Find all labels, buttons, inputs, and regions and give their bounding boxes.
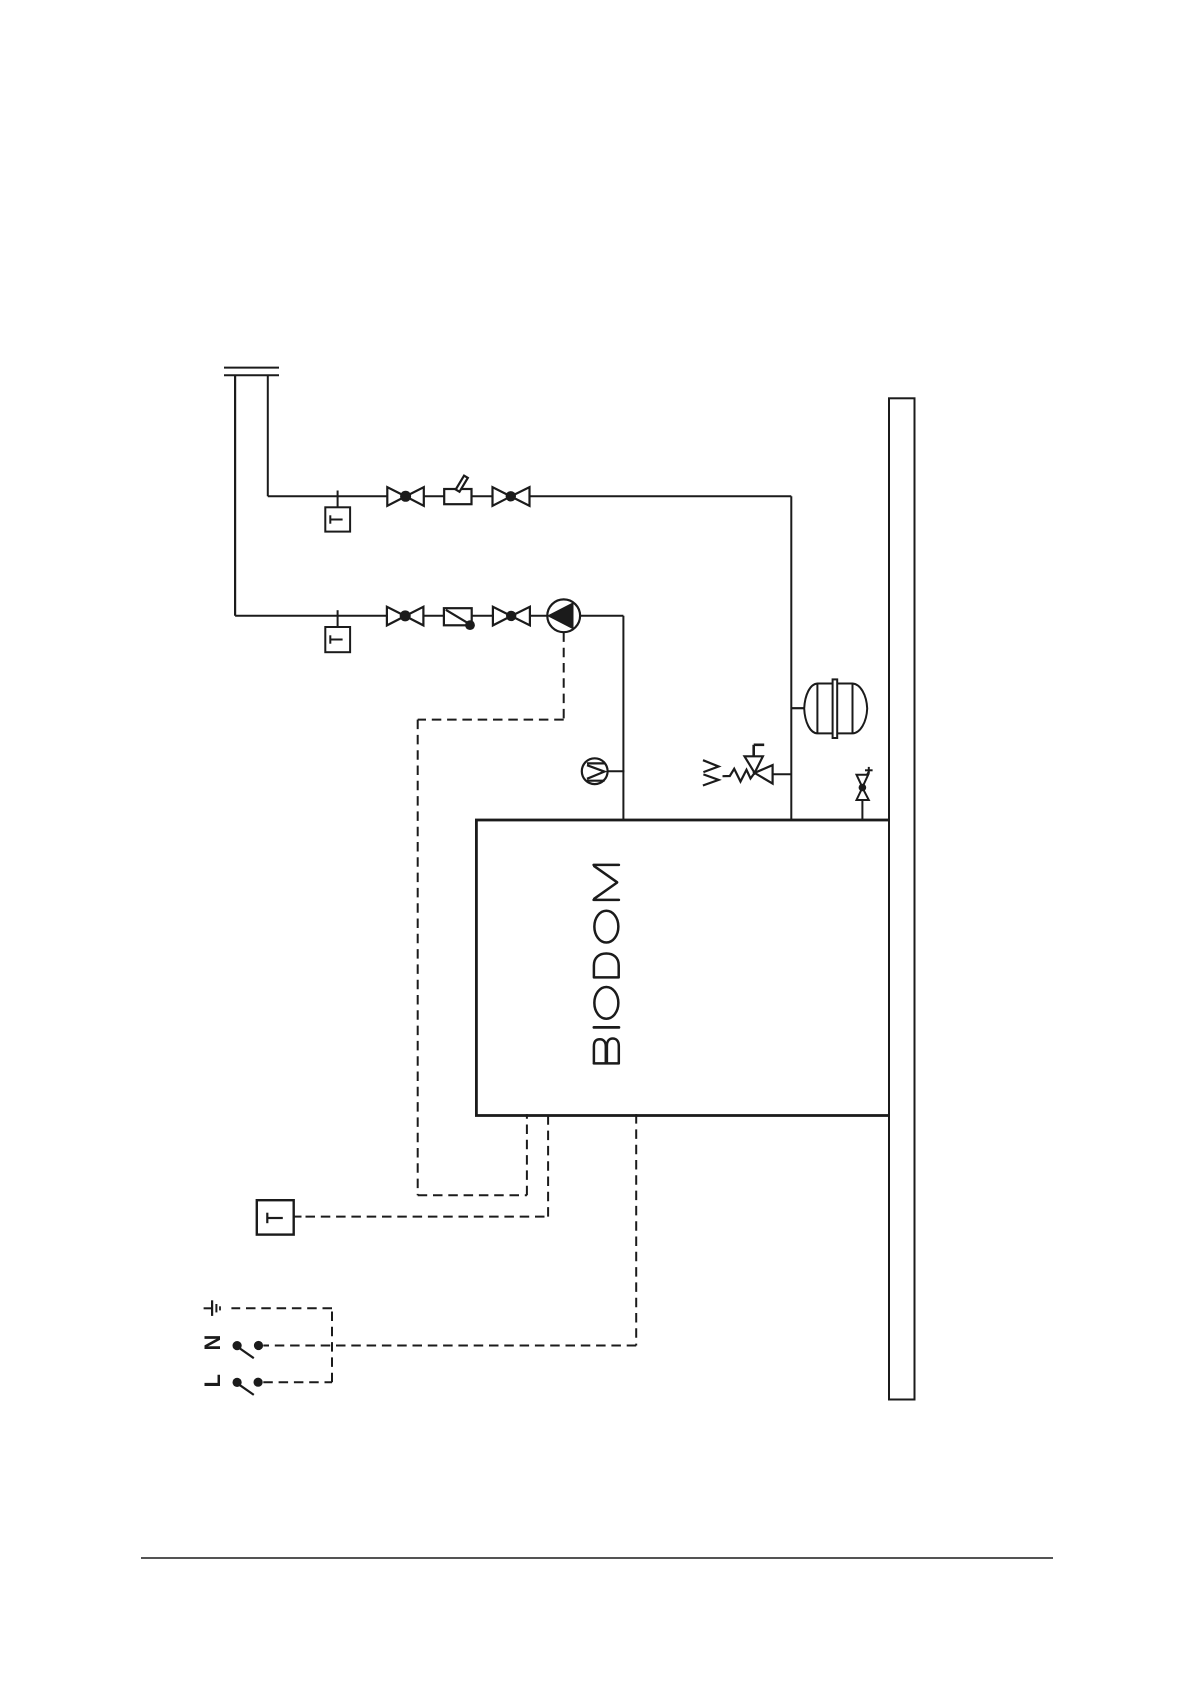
letter M xyxy=(594,864,619,867)
ground symbol xyxy=(204,1300,220,1316)
letter B xyxy=(594,1039,619,1064)
dashed wire: pump control from pump down xyxy=(418,632,564,1195)
wall xyxy=(889,398,915,1399)
sensor T1 box xyxy=(325,507,350,531)
sensor T1 stem xyxy=(337,491,339,508)
svg-text:N: N xyxy=(200,1335,225,1351)
gauge connector xyxy=(608,770,625,772)
room thermostat box xyxy=(257,1200,294,1234)
drain valve stem xyxy=(861,800,863,821)
sensor T2 box xyxy=(325,627,350,652)
boiler label BIODOM (rotated, drawn as thin strokes) xyxy=(594,865,619,1064)
lever valve (gas cock) xyxy=(444,476,471,505)
valve V3 xyxy=(387,607,424,626)
wire: upper supply pipe xyxy=(268,495,792,497)
wire: left riser pipe xyxy=(234,375,236,616)
valve V4 xyxy=(493,607,530,626)
letter I xyxy=(594,1026,619,1029)
wire: vertical pipe from pump to boiler xyxy=(622,616,624,820)
boiler body xyxy=(476,820,889,1116)
drain valve xyxy=(857,767,873,800)
wire: right riser pipe xyxy=(267,375,269,496)
svg-text:L: L xyxy=(200,1374,225,1387)
pump P1 xyxy=(547,599,580,632)
filter / check box xyxy=(444,608,475,630)
safety valve body xyxy=(745,756,773,783)
expansion vessel xyxy=(804,679,867,738)
expansion vessel connector xyxy=(791,707,804,709)
wire: lower return pipe xyxy=(235,615,623,617)
thermostat stub xyxy=(294,1216,302,1218)
letter O xyxy=(594,911,618,943)
valve V1 xyxy=(387,487,424,506)
valve V2 xyxy=(493,487,530,506)
dashed wire: thermostat to boiler xyxy=(306,1114,549,1217)
safety valve spring xyxy=(723,769,755,782)
safety valve vent chevrons xyxy=(703,760,719,785)
letter D xyxy=(594,954,619,978)
gauge M xyxy=(582,758,608,784)
chimney / heat-sink symbol top bars xyxy=(224,368,279,376)
switch contact L xyxy=(233,1378,263,1395)
wire: vertical pipe from supply to boiler xyxy=(790,496,792,820)
dashed wire: power from boiler xyxy=(231,1114,636,1382)
footer rule xyxy=(141,1557,1053,1559)
safety valve connector xyxy=(773,773,792,775)
letter O xyxy=(594,987,618,1019)
safety valve lever xyxy=(754,745,765,757)
sensor T2 stem xyxy=(337,610,339,627)
switch contact N xyxy=(233,1341,264,1358)
